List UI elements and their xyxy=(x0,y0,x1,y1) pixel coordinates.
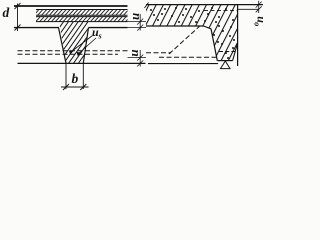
topping band 1 (hatched) xyxy=(36,10,128,16)
slab bottom line xyxy=(146,25,204,27)
support triangle xyxy=(221,61,231,69)
topping band 2 (hatched) xyxy=(36,17,128,22)
dimension u (bottom right of left detail) xyxy=(128,50,147,67)
beam right vertical edge xyxy=(237,5,239,66)
dimension b xyxy=(61,63,89,90)
ceiling line right detail xyxy=(148,63,218,65)
leader arrow 1 to joint xyxy=(69,36,93,55)
dashed hidden outline: diagonal xyxy=(169,26,200,54)
haunch step xyxy=(204,26,212,29)
ceiling line (rib bottom) with extension to u dim xyxy=(18,62,146,64)
svg-text:b: b xyxy=(72,71,79,86)
rib (hatched V-trapezoid) xyxy=(59,22,89,64)
hidden reinforcement dashed line 1 xyxy=(18,50,128,52)
dashed hidden outline: horizontal lower xyxy=(159,56,218,58)
beam bottom xyxy=(217,60,232,62)
dimension u (top right of left detail) xyxy=(128,14,147,31)
slab top line xyxy=(146,4,263,6)
svg-text:u: u xyxy=(127,13,142,20)
svg-text:u: u xyxy=(126,49,141,56)
svg-text:d: d xyxy=(3,5,10,20)
aggregate dots xyxy=(150,7,235,59)
svg-text:o: o xyxy=(253,22,262,26)
slab soffit lines xyxy=(14,27,59,29)
stray hatch stroke at cut edge xyxy=(145,3,149,9)
svg-text:s: s xyxy=(98,32,102,41)
hidden reinforcement dashed line 2 xyxy=(18,53,119,55)
leader arrow 2 to joint xyxy=(76,38,96,56)
slab top line xyxy=(14,5,128,7)
monolithic slab + beam hatched area with aggregate dots xyxy=(146,5,238,61)
hidden beam top dashed line xyxy=(204,10,237,12)
label u_o xyxy=(253,16,269,26)
beam right chamfer xyxy=(233,43,238,61)
hidden dashed segment inside beam xyxy=(219,51,237,53)
dimension u_o xyxy=(238,1,262,13)
dashed hidden outline: horizontal upper xyxy=(146,52,171,54)
beam left edge xyxy=(211,29,217,61)
dimension d: vertical dimension line xyxy=(15,3,21,31)
